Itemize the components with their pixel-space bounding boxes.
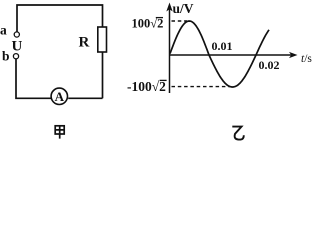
- svg-text:0.01: 0.01: [212, 39, 233, 53]
- svg-text:t/s: t/s: [301, 53, 312, 65]
- svg-text:U: U: [12, 39, 23, 55]
- svg-text:0.02: 0.02: [259, 58, 280, 72]
- svg-text:a: a: [0, 23, 7, 38]
- svg-text:R: R: [79, 35, 90, 51]
- svg-text:b: b: [2, 49, 10, 64]
- svg-text:u/V: u/V: [173, 1, 194, 16]
- svg-text:100√2: 100√2: [132, 17, 164, 31]
- svg-text:-100√2: -100√2: [127, 79, 166, 94]
- svg-text:A: A: [55, 89, 65, 104]
